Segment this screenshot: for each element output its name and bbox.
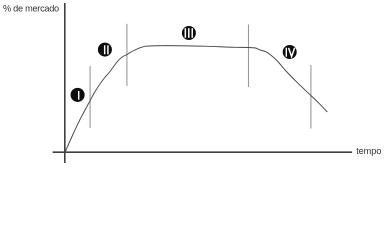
phase marker IV: [283, 45, 297, 59]
phase marker II: [98, 43, 112, 57]
life-cycle curve: [65, 46, 327, 153]
phase divider 1: [89, 66, 91, 128]
phase marker III: [182, 26, 196, 40]
phase divider 3: [248, 25, 250, 88]
x-axis: [53, 151, 353, 153]
svg-text:% de mercado: % de mercado: [3, 3, 59, 13]
y-axis: [64, 3, 66, 163]
phase divider 4: [310, 65, 312, 129]
phase divider 2: [126, 24, 128, 86]
phase marker I: [71, 88, 85, 102]
svg-text:tempo: tempo: [356, 146, 381, 156]
